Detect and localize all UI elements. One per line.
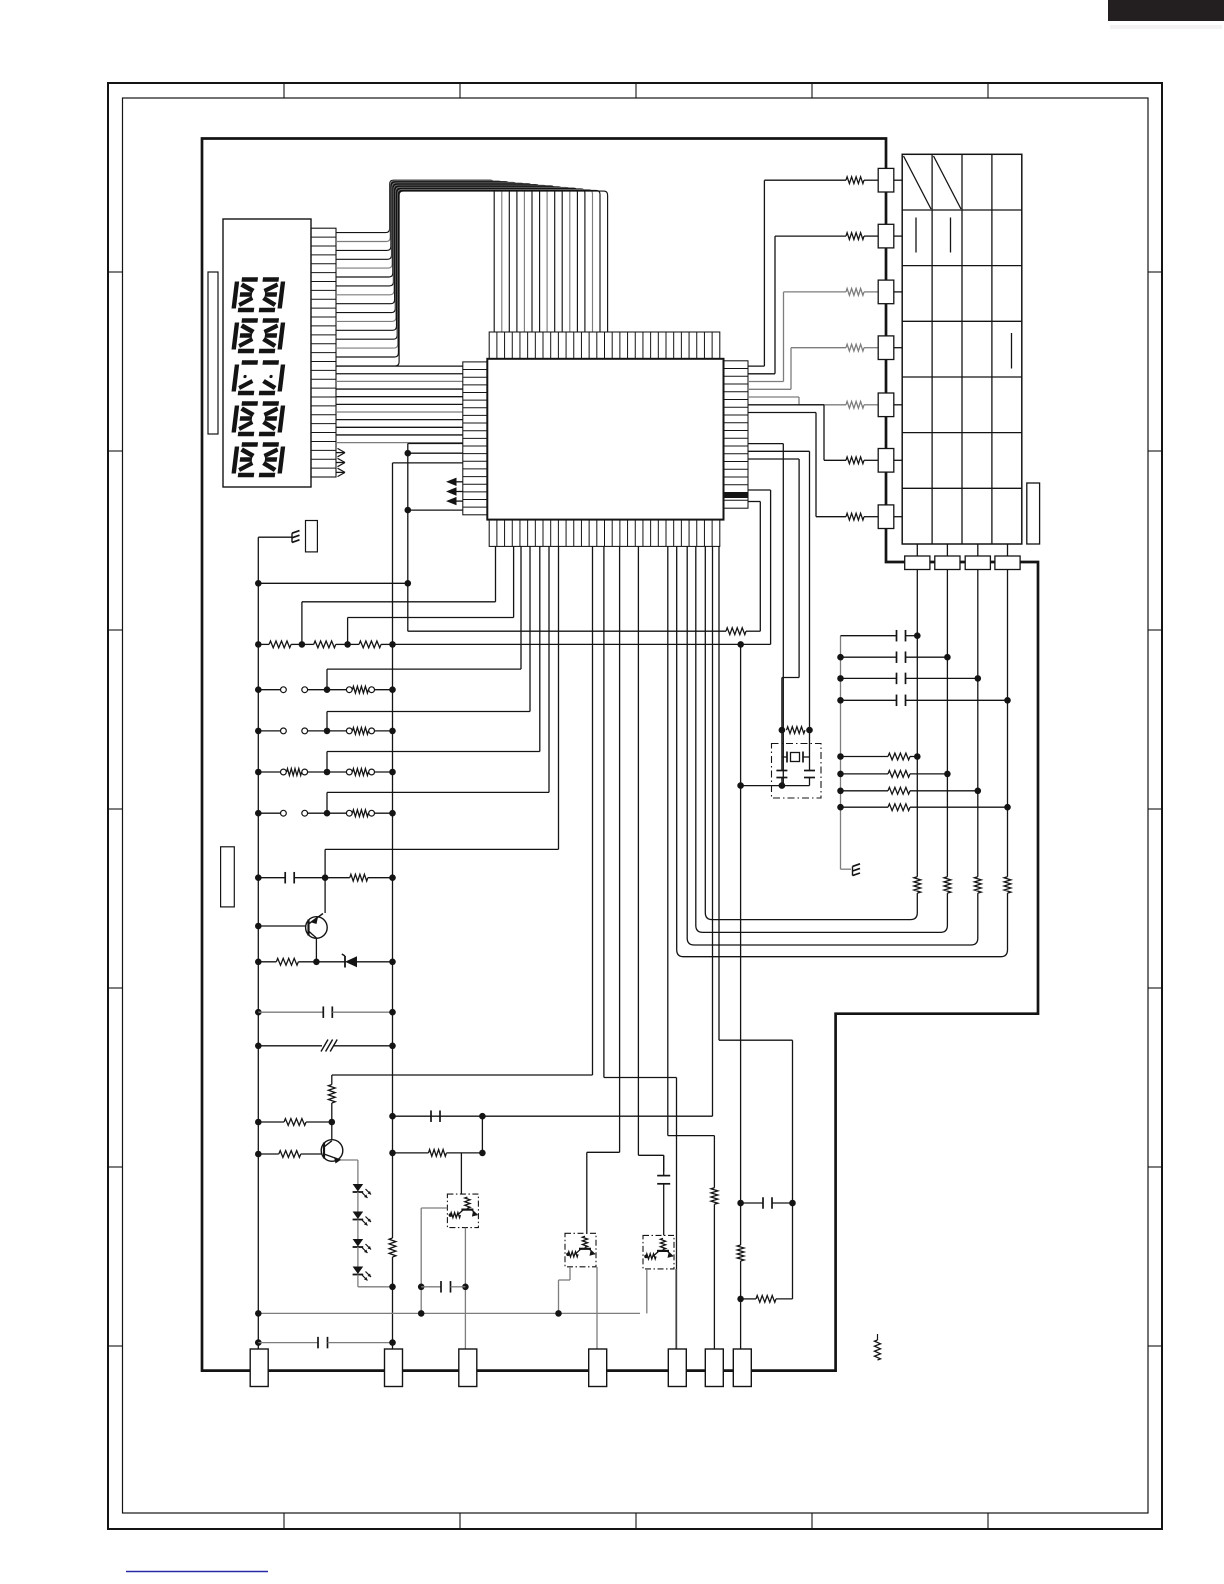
digital transistor Q6 box	[643, 1235, 674, 1269]
keyboard row 7 wire and resistor	[748, 412, 816, 414]
wire riser to IC right pin	[759, 502, 761, 632]
title block black bar	[1108, 0, 1224, 21]
vertical link to Q4 row	[481, 1116, 483, 1153]
Q6 emitter wires	[646, 1269, 648, 1313]
wire IC bottom pin to Q6 via capacitor C8	[637, 546, 639, 1155]
digital transistor Q4 box	[447, 1194, 478, 1228]
row J spark gap	[255, 1043, 262, 1050]
key box SW2	[878, 224, 894, 248]
border zone ticks top	[283, 83, 285, 98]
wire IC left pin 11 corner to vertical	[408, 443, 463, 445]
ground lead top of bus 1	[258, 536, 292, 538]
IC U1 left pin row	[463, 362, 488, 515]
crystal load capacitors C10 C11	[781, 757, 783, 770]
bottom connector boxes CN1-CN7	[250, 1349, 268, 1387]
resistor R10 vertical	[328, 1085, 335, 1104]
switch row F	[255, 810, 262, 817]
border zone ticks right	[1148, 271, 1162, 273]
LED chain D2-D5	[353, 1184, 364, 1192]
crystal area feed vertical	[740, 644, 742, 785]
IC U1 left input arrows	[452, 481, 463, 483]
ground symbol G1	[292, 531, 300, 534]
key box SW5	[878, 393, 894, 417]
cap bank capacitors C1-C4	[841, 635, 897, 637]
keyboard column drops	[916, 544, 918, 556]
display to IC top pin wire bundle	[336, 180, 494, 332]
key box SW4	[878, 336, 894, 360]
wire IC bottom pin to Q2 collector	[592, 546, 594, 1075]
row B riser to IC right pin	[770, 490, 772, 644]
row L resistor R12 to Q2 base	[255, 1151, 262, 1158]
keyboard row 2 wire and resistor	[748, 373, 775, 375]
ground row M wire	[258, 1312, 640, 1314]
display to IC left straight wires	[336, 365, 463, 367]
left bus 1 vertical	[257, 537, 259, 1352]
switch row E	[255, 769, 262, 776]
wire IC bottom pin to connector 6 via resistor R15	[667, 546, 669, 1135]
crystal X1 dash-dot box	[772, 744, 822, 799]
schematic block border	[202, 139, 1038, 1371]
IC U1 bottom pin row	[489, 520, 720, 547]
transistor Q1	[306, 917, 328, 939]
Q1 collector wire to row G node	[324, 878, 326, 913]
key box SW7	[878, 505, 894, 529]
resistor R21 on long middle wire	[408, 630, 726, 632]
wire IC bottom pin to Q5 collector	[619, 546, 621, 1152]
row B resistors R1 R2 R3	[255, 641, 262, 648]
digital transistor Q5	[582, 1236, 587, 1247]
grid tick row2 col2	[950, 218, 952, 253]
keyboard column connector boxes	[905, 556, 930, 570]
IC U1 filled pin	[724, 493, 749, 499]
inner border frame	[123, 98, 1149, 1513]
row E riser to IC bottom pin	[326, 752, 328, 773]
key box SW1	[878, 168, 894, 192]
Q4 base wire	[421, 1207, 447, 1209]
wire IC left pin 13 to left bus 2	[393, 462, 463, 464]
outer border frame	[108, 83, 1162, 1529]
row F riser to IC bottom pin	[326, 792, 328, 813]
Q2 emitter wire to LED chain	[341, 1159, 358, 1161]
cap bank left rail	[840, 636, 842, 870]
switch row D	[255, 728, 262, 735]
wire IC left pin 20 to trunk	[408, 509, 463, 511]
resistor R17 across crystal	[779, 727, 786, 734]
vertical 740.6 with cap resistor chain	[740, 786, 742, 1245]
digital transistor Q6	[660, 1238, 665, 1249]
row G capacitor C5 and resistor R8	[255, 874, 262, 881]
ground symbol G2	[853, 864, 861, 867]
wire IC right pin to crystal bottom	[748, 443, 783, 445]
crystal bottom wire	[741, 785, 810, 787]
wire IC bottom pin via 603.9 to connector 5	[603, 546, 605, 1077]
small rect component K1	[306, 521, 318, 552]
row G riser to IC bottom pin	[324, 849, 326, 877]
row wire A	[255, 580, 262, 587]
display digit pair row 2	[234, 321, 258, 352]
row K resistor R11	[255, 1119, 262, 1126]
display left bar	[208, 272, 218, 434]
IC U1 top pin row	[489, 332, 720, 359]
keyboard column riser wires	[705, 546, 917, 919]
spare resistor symbol	[877, 1334, 879, 1340]
Q4 emitter wire to connector	[464, 1228, 466, 1353]
IC U1 body	[487, 359, 723, 520]
grid tick row2 col1	[915, 218, 917, 253]
wire IC bottom pin 30 to cap node	[718, 546, 720, 1040]
capacitor C13 bottom row	[255, 1339, 262, 1346]
riser W3 from row B	[347, 618, 349, 645]
LED chain bottom wire	[357, 1275, 359, 1287]
IC U1 right pin row	[724, 361, 749, 508]
border zone ticks left	[108, 271, 123, 273]
riser W2 from row B	[301, 602, 303, 645]
resistor R14 horizontal	[741, 1298, 756, 1300]
faint header text strip	[1110, 25, 1222, 29]
keyboard row 5 wire and resistor	[748, 396, 799, 398]
transistor Q2	[321, 1140, 343, 1162]
keyboard row 4 wire and resistor	[748, 388, 791, 390]
side bar right of grid	[1027, 483, 1040, 544]
row H resistor R9 zener D1	[255, 959, 262, 966]
keyboard row 3 wire and resistor	[748, 381, 784, 383]
capacitor C12 row	[418, 1284, 425, 1291]
node on trunk at row A	[405, 580, 412, 587]
keyboard row 1 wire and resistor	[748, 365, 764, 367]
key box SW3	[878, 280, 894, 304]
key matrix grid	[902, 154, 1022, 544]
grid diagonal row1 col2	[934, 156, 962, 209]
digital transistor Q5 box	[565, 1233, 596, 1267]
grid tick row4 col4	[1011, 333, 1013, 369]
keyboard column verticals with resistors	[916, 586, 918, 877]
border zone ticks bottom	[283, 1513, 285, 1529]
switch row C	[255, 686, 262, 693]
row C riser to IC bottom pin	[326, 669, 328, 690]
display module DS1 outline	[223, 219, 311, 487]
wire IC right pin to crystal right	[748, 450, 810, 452]
display digit pair row 3	[234, 363, 258, 394]
res bank resistors R4-R7	[837, 753, 844, 760]
row resistor R16 to Q4	[389, 1150, 396, 1157]
row D riser to IC bottom pin	[326, 712, 328, 731]
resistor R13 vertical inline	[737, 1245, 744, 1261]
Q1 base wire	[255, 923, 262, 930]
grid diagonal row1 col1	[904, 156, 932, 209]
keyboard row 6 wire and resistor	[748, 404, 824, 406]
left tall narrow rect K2	[221, 847, 235, 907]
capacitor C7	[741, 1202, 763, 1204]
display pin header	[311, 228, 336, 477]
display digit pair row 5	[234, 445, 258, 476]
left bus 2 vertical	[392, 463, 394, 1238]
display digit pair row 1	[234, 280, 258, 311]
crystal X1	[781, 730, 783, 757]
footer link underline	[126, 1571, 268, 1573]
display no-connect arrows	[336, 452, 345, 454]
wire IC left pin 12	[408, 452, 463, 454]
resistor R20 inline on bus 2	[389, 1238, 396, 1257]
capacitor C9 on row P	[430, 1110, 432, 1122]
digital transistor Q4	[465, 1197, 470, 1208]
display digit pair row 4	[234, 404, 258, 435]
key box SW6	[878, 449, 894, 473]
Q1 emitter wire	[315, 938, 317, 962]
wire IC right pin to crystal left with jog	[748, 458, 799, 460]
wire IC bottom pin 29 to cap row P	[712, 546, 714, 1116]
row I capacitor C6	[255, 1009, 262, 1016]
vertical trunk x=407.8	[407, 444, 409, 632]
Q5 emitter wires	[569, 1267, 571, 1280]
row B wire extension to right	[393, 643, 771, 645]
